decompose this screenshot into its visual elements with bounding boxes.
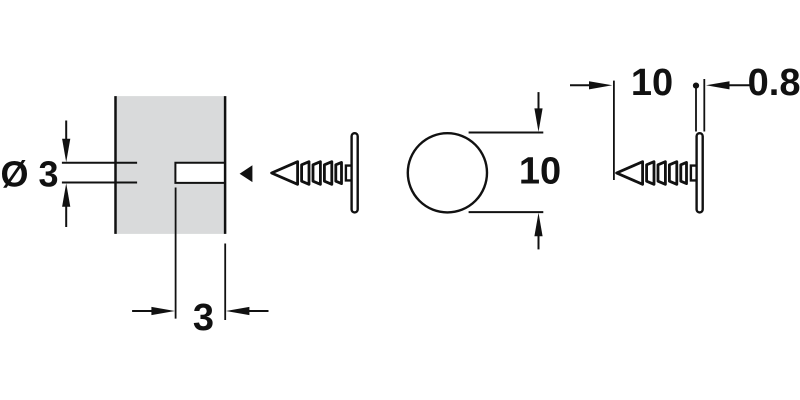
panel right edge bbox=[224, 96, 227, 234]
slot depth ext line right bbox=[224, 244, 226, 321]
length dim arrow bbox=[570, 81, 612, 89]
ext line head right bbox=[703, 79, 705, 132]
panel left edge bbox=[114, 96, 117, 234]
insertion direction arrow bbox=[240, 165, 253, 182]
circle down arrow bbox=[534, 92, 542, 132]
dia3 lower arrow bbox=[62, 183, 70, 227]
slot depth ext line left bbox=[175, 188, 177, 319]
svg-text:3: 3 bbox=[193, 297, 214, 339]
svg-text:10: 10 bbox=[631, 62, 673, 104]
svg-text:Ø 3: Ø 3 bbox=[1, 154, 59, 195]
dia3 upper arrow bbox=[62, 121, 70, 163]
depth dim right arrow bbox=[226, 307, 269, 315]
hole line top bbox=[62, 162, 137, 164]
pin left side view bbox=[272, 133, 358, 212]
hole line bottom bbox=[62, 182, 137, 184]
depth dim left arrow bbox=[132, 307, 175, 315]
front view circle bbox=[408, 133, 487, 212]
slot in panel bbox=[175, 163, 226, 183]
circle dim line bottom bbox=[469, 211, 544, 213]
svg-text:0.8: 0.8 bbox=[748, 62, 800, 104]
circle up arrow bbox=[534, 213, 542, 250]
ext line head left bbox=[695, 89, 697, 132]
pin right side view bbox=[617, 133, 703, 212]
svg-text:10: 10 bbox=[519, 151, 561, 193]
thickness dim arrow bbox=[706, 81, 751, 89]
ext line pin tip bbox=[613, 81, 615, 180]
panel cross-section gray fill bbox=[116, 96, 226, 234]
dim dot bbox=[693, 83, 699, 89]
circle dim line top bbox=[469, 132, 544, 134]
